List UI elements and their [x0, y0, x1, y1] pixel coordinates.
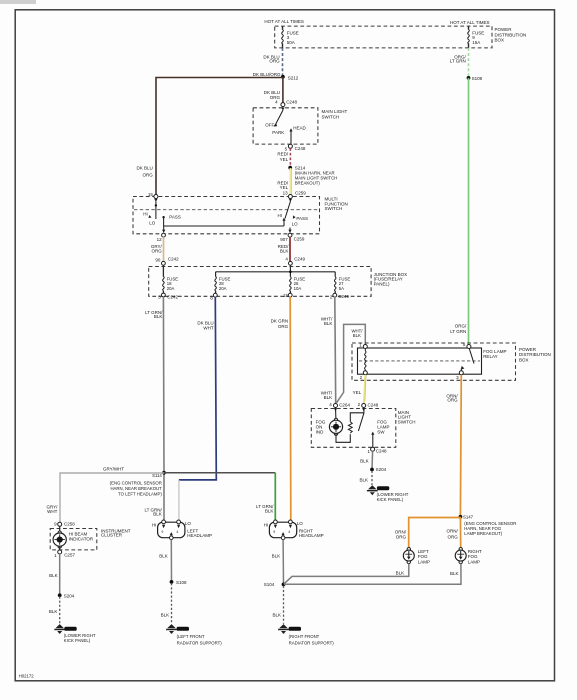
- wire BLK dashed to ground: [371, 471, 373, 485]
- splice S204 (fog switch): [370, 468, 374, 472]
- wire RED/BLK (pin 907 to junction box pin 4): [289, 237, 291, 261]
- svg-text:C242: C242: [167, 294, 178, 299]
- fuse F18 leads: [162, 265, 164, 293]
- junction box pin 2 C249: [333, 293, 337, 297]
- svg-text:LAMP BREAKOUT): LAMP BREAKOUT): [464, 531, 502, 536]
- wire fuse3 to S212 (dashed, shared feed): [282, 48, 284, 75]
- relay pin 5: [467, 345, 471, 349]
- svg-text:12: 12: [157, 237, 163, 242]
- svg-text:KICK PANEL): KICK PANEL): [64, 638, 91, 643]
- ground G101: [278, 624, 289, 634]
- ground G202 (fog switch): [367, 485, 378, 495]
- svg-text:HEADLAMP: HEADLAMP: [187, 533, 212, 538]
- svg-text:5A: 5A: [339, 286, 344, 291]
- left headlamp: [158, 520, 185, 540]
- svg-text:C259: C259: [294, 236, 305, 241]
- svg-text:DK BLU/ORG: DK BLU/ORG: [253, 72, 281, 77]
- dimmer arm right from pin 13: [288, 195, 292, 199]
- svg-text:WHT: WHT: [203, 326, 213, 331]
- svg-text:C259: C259: [295, 190, 306, 195]
- relay contact arm: [469, 349, 474, 364]
- wire ORG branch to left fog lamp: [409, 518, 461, 548]
- splice S147: [459, 515, 463, 519]
- svg-text:15: 15: [148, 192, 154, 197]
- svg-text:SWITCH: SWITCH: [322, 115, 340, 120]
- wire YEL relay pin2 to fog switch pin 2: [364, 375, 366, 404]
- wire BLK cluster to S204: [59, 554, 61, 595]
- fixed contact arrow: [371, 432, 374, 435]
- wire into hi-beam indicator: [59, 526, 61, 532]
- ground G103: [166, 624, 177, 634]
- junction box pin 5 C242: [162, 293, 166, 297]
- svg-text:IND: IND: [316, 430, 325, 435]
- svg-text:BLK: BLK: [360, 458, 369, 463]
- junction box pin 8: [213, 293, 217, 297]
- wire BLK left fog to S104: [284, 564, 409, 584]
- svg-text:(LEFT FRONT: (LEFT FRONT: [177, 634, 205, 639]
- svg-text:HI: HI: [264, 523, 269, 528]
- svg-text:4: 4: [288, 530, 290, 534]
- svg-text:HI: HI: [143, 211, 148, 216]
- left fog lamp: [403, 548, 414, 564]
- svg-text:ORG: ORG: [143, 173, 154, 178]
- svg-text:PARK: PARK: [272, 130, 284, 135]
- svg-text:MAIN LIGHT SWITCH: MAIN LIGHT SWITCH: [295, 175, 338, 180]
- fog lamp relay body: [358, 348, 482, 374]
- svg-text:KICK PANEL): KICK PANEL): [377, 497, 404, 502]
- svg-text:BLK: BLK: [49, 573, 58, 578]
- main light switch box: [253, 108, 318, 144]
- svg-text:ORG: ORG: [396, 534, 407, 539]
- connector pin 2 C248: [362, 404, 366, 408]
- fog on indicator lamp: [334, 408, 337, 411]
- svg-text:S114: S114: [152, 473, 162, 478]
- wire LT GRN/BLK drop to right headlamp HI: [274, 473, 276, 521]
- svg-text:HEADLAMP: HEADLAMP: [299, 533, 324, 538]
- relay pin 3: [459, 371, 463, 375]
- wire LT GRN/BLK (fuse18 out, to S114 and left headlamp HI): [162, 297, 165, 521]
- svg-text:HOT AT ALL TIMES: HOT AT ALL TIMES: [264, 19, 304, 24]
- svg-text:C258: C258: [64, 521, 75, 526]
- svg-text:20A: 20A: [167, 286, 175, 291]
- svg-text:YEL: YEL: [280, 185, 289, 190]
- svg-text:S204: S204: [376, 467, 387, 472]
- svg-text:LO: LO: [297, 521, 304, 526]
- splice S204: [58, 593, 62, 597]
- connector pin 4 C264: [334, 404, 338, 408]
- svg-text:C248: C248: [368, 402, 379, 407]
- fuse F26: [290, 277, 292, 291]
- wire ORG to right fog lamp: [459, 517, 461, 547]
- fuse 9 lead wires: [468, 26, 470, 48]
- fuse 3 lead wires: [282, 26, 284, 48]
- wire BLK right fog to S104: [284, 564, 461, 585]
- relay pin 1: [363, 345, 367, 349]
- svg-text:LT GRN: LT GRN: [450, 59, 466, 64]
- junction box pin 15: [288, 293, 292, 297]
- svg-text:BLK: BLK: [159, 554, 168, 559]
- svg-text:BLK: BLK: [161, 612, 170, 617]
- svg-text:OFF: OFF: [265, 122, 274, 127]
- svg-text:BLK: BLK: [353, 333, 361, 338]
- fuse F27: [334, 277, 336, 291]
- power distribution box dashed: [352, 343, 516, 380]
- svg-text:90: 90: [155, 257, 161, 262]
- svg-text:LO: LO: [185, 521, 192, 526]
- svg-text:BOX: BOX: [519, 357, 529, 362]
- svg-text:BLK: BLK: [153, 512, 162, 517]
- wire WHT leg to LO pin: [178, 480, 180, 521]
- connector pin 12: [162, 233, 166, 237]
- wire BLK dashed to ground: [171, 583, 173, 624]
- wire DK GRN/ORG (fuse26 out, to right headlamp LO): [289, 297, 292, 521]
- svg-text:15: 15: [283, 293, 289, 298]
- wire S109 south to fog lamp relay pin 5: [468, 78, 470, 345]
- PASS contact (left): [162, 216, 164, 218]
- svg-text:C248: C248: [295, 146, 306, 151]
- svg-text:PASS: PASS: [169, 215, 181, 220]
- svg-text:4: 4: [176, 530, 178, 534]
- svg-text:S204: S204: [64, 594, 75, 599]
- wire pin5 to S214 (dashed RED/YEL): [289, 148, 291, 166]
- wire S114 east to right headlamp HI drop: [164, 472, 275, 474]
- wire S212 south to main light switch pin 4: [282, 77, 284, 103]
- wire GRY/WHT west then south to cluster: [60, 473, 164, 522]
- svg-text:G101: G101: [290, 627, 298, 631]
- svg-text:BLK: BLK: [265, 509, 274, 514]
- svg-text:S108: S108: [176, 580, 187, 585]
- svg-text:C257: C257: [64, 553, 75, 558]
- svg-text:BLK: BLK: [280, 248, 289, 253]
- svg-text:ORG: ORG: [448, 534, 459, 539]
- connector pin 1 C257: [59, 547, 61, 551]
- splice S108: [170, 580, 174, 584]
- relay coil: [364, 349, 366, 352]
- hi-beam indicator lamp: [53, 531, 66, 548]
- svg-text:RELAY: RELAY: [483, 354, 497, 359]
- svg-text:S109: S109: [472, 76, 483, 81]
- svg-text:9: 9: [273, 530, 275, 534]
- svg-text:ORN/: ORN/: [447, 528, 459, 533]
- ground G202 (cluster): [54, 624, 65, 634]
- svg-text:BLK: BLK: [49, 609, 58, 614]
- svg-text:HEAD: HEAD: [293, 125, 306, 130]
- svg-text:RED/: RED/: [277, 152, 289, 157]
- svg-text:GRY/WHT: GRY/WHT: [103, 467, 124, 472]
- wire fuse9 to S109 (dashed): [468, 48, 470, 76]
- relay pin 2: [363, 371, 367, 375]
- fuse F28: [215, 277, 217, 291]
- svg-text:RIGHT: RIGHT: [468, 549, 482, 554]
- svg-text:CLUSTER: CLUSTER: [101, 533, 123, 538]
- splice S212: [281, 75, 285, 79]
- svg-text:20A: 20A: [219, 286, 227, 291]
- arrow to pin 907: [288, 230, 291, 233]
- riser from crossbar with arrow: [283, 220, 285, 226]
- svg-text:15A: 15A: [472, 40, 480, 45]
- splice S214: [288, 166, 292, 170]
- svg-text:G103: G103: [178, 627, 186, 631]
- junction box pin 4 C249: [289, 261, 293, 265]
- svg-text:YEL: YEL: [280, 157, 289, 162]
- svg-text:TO LEFT HEADLAMP): TO LEFT HEADLAMP): [118, 491, 162, 496]
- svg-text:LO: LO: [292, 222, 299, 227]
- internal linkage dashed line: [134, 209, 319, 211]
- wire WHT/BLK (fuse27 out, to main light switch pin 4): [334, 297, 337, 403]
- svg-text:ORG/: ORG/: [455, 323, 467, 328]
- svg-text:C248: C248: [286, 99, 297, 104]
- svg-text:RADIATOR SUPPORT): RADIATOR SUPPORT): [289, 640, 335, 645]
- svg-text:50A: 50A: [287, 40, 295, 45]
- svg-text:POWER: POWER: [495, 27, 513, 32]
- svg-text:C248: C248: [376, 449, 387, 454]
- connector pin 9 C258: [58, 522, 62, 526]
- svg-text:SW: SW: [377, 430, 385, 435]
- main light switch (fog) box: [311, 409, 396, 448]
- svg-text:ORG: ORG: [447, 398, 458, 403]
- svg-text:9: 9: [161, 530, 163, 534]
- svg-text:ORG: ORG: [269, 59, 280, 64]
- svg-text:YEL: YEL: [353, 390, 362, 395]
- svg-text:MAIN LIGHT: MAIN LIGHT: [322, 109, 348, 114]
- svg-text:BLK: BLK: [154, 314, 163, 319]
- instrument cluster box: [50, 529, 97, 550]
- splice S109: [467, 76, 471, 80]
- svg-text:S147: S147: [463, 515, 474, 520]
- svg-text:LO: LO: [149, 221, 156, 226]
- svg-text:(ENG CONTROL SENSOR: (ENG CONTROL SENSOR: [110, 480, 162, 485]
- wire BLK right headlamp to S104: [282, 540, 284, 584]
- connector pin 1 C248: [371, 447, 375, 451]
- HEAD contact to pin 5: [289, 128, 292, 131]
- svg-text:G202: G202: [378, 487, 386, 491]
- svg-text:HOT AT ALL TIMES: HOT AT ALL TIMES: [450, 20, 490, 25]
- svg-text:BLK: BLK: [359, 478, 368, 483]
- connector pin 5 C248: [288, 144, 292, 148]
- svg-text:BLK: BLK: [396, 570, 405, 575]
- svg-text:BREAKOUT): BREAKOUT): [295, 181, 321, 186]
- svg-text:BLK: BLK: [450, 571, 459, 576]
- svg-text:HARN, NEAR BREAKOUT: HARN, NEAR BREAKOUT: [110, 486, 162, 491]
- splice S104: [282, 583, 286, 587]
- wire S212 west then south to MFS pin 15: [156, 78, 283, 195]
- svg-text:BLK: BLK: [324, 321, 333, 326]
- svg-text:S104: S104: [264, 582, 275, 587]
- svg-text:(RIGHT FRONT: (RIGHT FRONT: [289, 634, 320, 639]
- wire ORG relay pin3 to S147: [459, 375, 462, 516]
- svg-text:BLK: BLK: [272, 554, 281, 559]
- lamp bottom to crossbar: [336, 434, 350, 443]
- svg-text:INDICATOR: INDICATOR: [69, 536, 94, 541]
- svg-text:LT GRN: LT GRN: [450, 329, 466, 334]
- wire GRY/ORG (pin 12 to junction box pin 90): [163, 237, 165, 261]
- switch arm from pin 4: [281, 107, 284, 110]
- svg-text:PASS: PASS: [296, 216, 308, 221]
- right headlamp: [269, 520, 296, 540]
- svg-text:C242: C242: [168, 257, 179, 262]
- svg-text:C264: C264: [339, 402, 350, 407]
- svg-text:G202: G202: [65, 627, 73, 631]
- wire BLK dashed to ground: [283, 586, 285, 624]
- wire DK BLU/WHT (fuse28 out, to left headlamp LO): [179, 297, 216, 480]
- connector pin 907 C259: [288, 233, 292, 237]
- resistor: [348, 422, 352, 433]
- svg-text:LAMP: LAMP: [468, 560, 480, 565]
- connector pin 4 C248: [281, 103, 285, 107]
- svg-text:PANEL): PANEL): [374, 281, 390, 286]
- svg-text:RADIATOR SUPPORT): RADIATOR SUPPORT): [177, 640, 223, 645]
- multi-function switch box: [133, 197, 320, 234]
- svg-text:13: 13: [283, 191, 289, 196]
- splice S114: [162, 471, 166, 475]
- svg-text:WHT: WHT: [47, 509, 57, 514]
- svg-text:FOG: FOG: [468, 554, 478, 559]
- svg-text:HI: HI: [278, 213, 283, 218]
- connector pin 15 C259: [154, 195, 158, 199]
- scan artifact top-left: [0, 0, 36, 4]
- fuse F18: [163, 276, 165, 290]
- svg-text:10A: 10A: [294, 286, 302, 291]
- fuse F3: [282, 30, 284, 44]
- wire BLK left headlamp to S108: [170, 540, 172, 582]
- right fog lamp: [455, 548, 466, 564]
- wire branch pin4 up to fog lamp relay pin 1: [337, 324, 366, 402]
- svg-text:LEFT: LEFT: [418, 549, 429, 554]
- svg-text:BOX: BOX: [495, 38, 505, 43]
- svg-text:907: 907: [280, 237, 288, 242]
- svg-text:SWITCH: SWITCH: [325, 206, 343, 211]
- svg-text:ORG: ORG: [278, 324, 289, 329]
- fog lamp switch arm: [358, 413, 364, 431]
- svg-text:SWITCH: SWITCH: [398, 419, 416, 424]
- svg-text:ORG: ORG: [152, 248, 163, 253]
- fuse F9: [468, 30, 470, 44]
- power distribution box (top dashed): [275, 26, 492, 48]
- svg-text:C249: C249: [338, 294, 349, 299]
- dimmer arm left: [154, 199, 157, 202]
- svg-text:LAMP: LAMP: [418, 560, 430, 565]
- svg-text:S212: S212: [288, 76, 299, 81]
- svg-text:HI: HI: [152, 523, 157, 528]
- wire BLK to S204: [371, 451, 374, 469]
- wire S214 to MFS pin 13 (RED/YEL solid): [289, 168, 291, 194]
- junction box dashed box: [149, 267, 371, 297]
- internal bus from pin 4: [216, 265, 336, 277]
- arrow to pin 12: [162, 230, 165, 233]
- svg-text:BLK: BLK: [272, 612, 281, 617]
- svg-text:DISTRIBUTION: DISTRIBUTION: [495, 32, 527, 37]
- resistor top to switch feed: [350, 408, 364, 422]
- svg-text:DK BLU: DK BLU: [137, 166, 153, 171]
- svg-text:H02172: H02172: [19, 674, 35, 679]
- junction box pin 90 C242: [162, 261, 166, 265]
- svg-text:FOG: FOG: [418, 554, 428, 559]
- svg-text:C249: C249: [294, 256, 305, 261]
- svg-text:BLK: BLK: [324, 395, 333, 400]
- wire BLK dashed to ground: [59, 597, 61, 624]
